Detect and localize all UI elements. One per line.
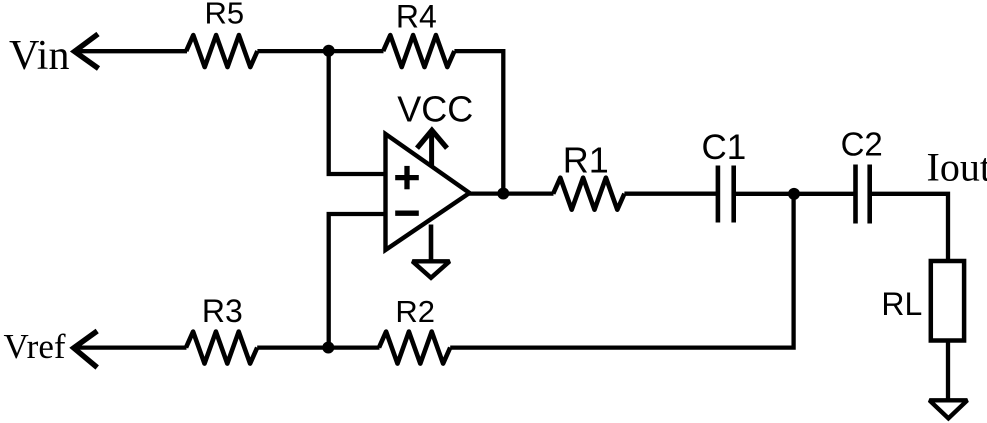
wire R5 to node A to R4 — [257, 49, 383, 53]
VCC supply arrow — [417, 130, 447, 166]
op-amp U1 — [386, 134, 470, 250]
wire Vref rail to R3 — [74, 345, 187, 349]
svg-text:VCC: VCC — [397, 88, 473, 129]
svg-text:R3: R3 — [202, 293, 243, 329]
arrowhead Vref — [74, 331, 98, 368]
svg-text:R2: R2 — [395, 294, 435, 329]
svg-text:RL: RL — [881, 286, 922, 322]
resistor R5 — [186, 35, 257, 67]
svg-text:C1: C1 — [702, 128, 747, 167]
resistor R1 — [553, 178, 624, 210]
wire inverting input down to node D — [329, 214, 386, 348]
wire R3 to node D to R2 — [257, 345, 379, 349]
node C junction dot — [788, 188, 800, 200]
ground op-amp — [412, 261, 449, 278]
wire Vin rail to R5 — [75, 49, 188, 53]
node D junction dot — [322, 342, 334, 354]
node A junction dot — [323, 45, 335, 57]
svg-text:Iout: Iout — [927, 145, 987, 190]
ground RL — [929, 400, 967, 418]
wire C1 to node C to C2 — [734, 192, 856, 196]
resistor R4 — [383, 35, 454, 67]
wire op-amp ground stem — [429, 225, 434, 261]
wire R1 to C1 — [624, 192, 718, 196]
wire C2 to RL — [870, 194, 948, 261]
wire non-inverting input from node A — [329, 51, 386, 174]
wire R2 to node C riser — [450, 194, 793, 348]
arrowhead Vin — [75, 34, 99, 69]
capacitor C2 — [856, 165, 870, 224]
wire RL to ground — [946, 341, 950, 401]
node B junction dot — [497, 188, 509, 200]
resistor R2 — [379, 332, 450, 364]
capacitor C1 — [718, 166, 734, 223]
resistor RL box — [931, 261, 964, 341]
svg-text:R5: R5 — [204, 0, 244, 31]
resistor R3 — [186, 332, 257, 364]
svg-text:R4: R4 — [396, 0, 437, 34]
svg-text:R1: R1 — [563, 139, 609, 180]
svg-text:C2: C2 — [841, 125, 883, 162]
wire R4 down to output node B — [454, 51, 503, 193]
svg-text:Vref: Vref — [4, 327, 66, 366]
wire output node B to R1 — [469, 191, 554, 195]
svg-text:Vin: Vin — [9, 33, 69, 79]
